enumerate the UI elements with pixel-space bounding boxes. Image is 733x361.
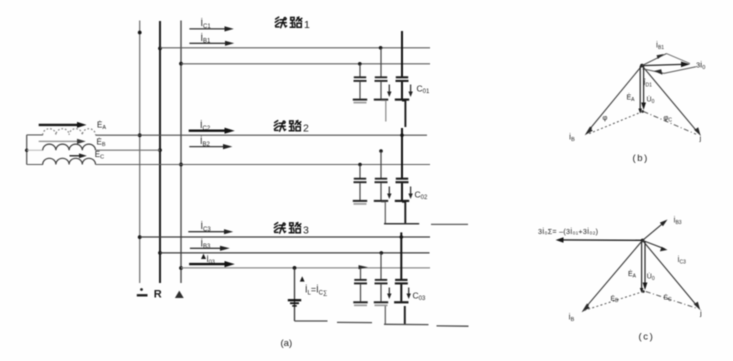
phasor c label E_B on dashed side xyxy=(611,294,620,304)
current arrow I_B3 xyxy=(190,246,230,251)
current arrow beside C02 cap3 xyxy=(408,187,412,200)
svg-text:İC1: İC1 xyxy=(201,18,212,30)
capacitor C03 cap2 xyxy=(374,280,388,305)
bus C (right vertical busbar) xyxy=(180,21,182,284)
current arrow beside C03 cap2 xyxy=(387,288,391,300)
current arrow I_C2 (bold) xyxy=(189,128,235,134)
capacitor group C01: cap3 riser (bold) xyxy=(401,31,403,77)
phasor b vector E_A (left vertical) xyxy=(638,66,642,114)
capacitor group C02: cap2 riser xyxy=(380,151,382,179)
phasor c vector I_C3 (down-right) xyxy=(643,240,668,251)
fault ground branch wire xyxy=(294,268,296,321)
current arrow beside C02 cap2 xyxy=(387,187,391,200)
phasor diagram b: origin node xyxy=(640,64,644,68)
bus B (middle vertical busbar) xyxy=(159,21,161,283)
fault current label I_L = I_C sum xyxy=(305,285,327,297)
capacitor C01 cap2 xyxy=(374,77,388,99)
current arrow I_C1 xyxy=(189,26,233,31)
phasor b angle label phi left xyxy=(603,113,608,122)
svg-text:ĖA: ĖA xyxy=(627,93,636,103)
svg-text:İB: İB xyxy=(569,133,575,144)
phasor c vector I_C (down-right long) xyxy=(643,240,701,310)
phasor c vector U_0 (right vertical) xyxy=(643,241,648,290)
ground bar under C02 group xyxy=(384,223,419,225)
wire line3 phase A conductor xyxy=(140,236,430,238)
svg-text:φ: φ xyxy=(603,113,608,122)
node line2-C / C02 cap1 riser junction xyxy=(358,163,362,167)
capacitor group C01: cap2 riser xyxy=(380,48,382,78)
phasor c dashed side to left tip xyxy=(584,292,643,311)
svg-text:(c): (c) xyxy=(639,332,655,343)
capacitor C03 cap3 xyxy=(394,280,408,302)
wire neutral to winding B xyxy=(27,149,43,151)
svg-text:2: 2 xyxy=(303,123,309,135)
wire C03 cap3 tail (bold) xyxy=(404,306,406,325)
phasor b label at right tip xyxy=(699,134,702,143)
svg-text:ĖA: ĖA xyxy=(97,121,106,132)
capacitor C02 cap1 xyxy=(353,179,367,204)
svg-text:j: j xyxy=(699,134,702,143)
node line1-B / C01 cap2 riser junction xyxy=(379,46,383,50)
capacitor C02 cap2 xyxy=(374,179,388,201)
EMF label E_A xyxy=(97,121,106,132)
ground line dash 2 (under C03 tails) xyxy=(384,323,429,325)
phasor b vector 3I_0 (horizontal) xyxy=(642,62,690,68)
node bus C / line3 tap junction xyxy=(179,266,183,270)
value label C02 xyxy=(415,190,428,202)
current label I_B1 xyxy=(201,33,212,45)
svg-text:φC: φC xyxy=(664,113,673,123)
phasor b node at vertical tip xyxy=(641,110,644,113)
phasor b label I_B1 xyxy=(656,41,664,51)
node line2-B / C02 cap2 riser junction xyxy=(379,149,383,153)
current label I_C2 xyxy=(200,120,211,132)
wire C01 cap2 tail xyxy=(381,101,386,122)
fault current up arrow xyxy=(300,276,305,281)
phasor c vector E_A (left vertical) xyxy=(640,241,644,293)
capacitor C01 cap1 xyxy=(353,77,367,102)
EMF label E_B xyxy=(97,138,106,149)
svg-text:İC3: İC3 xyxy=(201,221,212,233)
svg-text:R: R xyxy=(154,289,162,301)
phasor c label E_A xyxy=(628,269,637,279)
phasor c label I_C3 xyxy=(678,255,687,265)
phasor b dash-dot side to right tip xyxy=(644,112,697,135)
label (c) xyxy=(639,332,655,343)
phasor c label E_C on dash-dot side xyxy=(664,293,673,303)
svg-text:İB3: İB3 xyxy=(674,216,682,226)
transformer winding A (dotted coil) xyxy=(43,129,96,135)
current arrow I_B2 xyxy=(189,144,232,149)
EMF label E_C xyxy=(95,150,104,161)
node bus B / line3 tap junction xyxy=(158,251,162,255)
svg-text:3İ₀Σ= –(3İ₀₁+3İ₀₂): 3İ₀Σ= –(3İ₀₁+3İ₀₂) xyxy=(538,227,598,236)
phasor c node at vertical tip xyxy=(642,290,645,293)
current arrow I_B1 xyxy=(189,41,234,46)
svg-text:İB: İB xyxy=(569,313,575,324)
current label I_C3 xyxy=(201,221,212,233)
wire line2 phase C conductor (from winding C through bus C) xyxy=(96,164,431,166)
phasor c label right tip xyxy=(699,309,702,318)
svg-text:j: j xyxy=(699,309,702,318)
node line2-A / C02 cap3 riser junction xyxy=(400,133,404,137)
svg-text:İL=İC∑: İL=İC∑ xyxy=(305,285,327,297)
node bus A / line2 tap junction xyxy=(138,133,142,137)
EMF arrow phase B xyxy=(39,139,86,144)
current label I_03 with up tick xyxy=(201,254,215,266)
capacitor group C02: cap1 riser xyxy=(359,165,361,179)
ground line solid segment xyxy=(295,320,328,322)
phasor b lower parallelogram side xyxy=(643,67,696,75)
transformer winding C (coil) xyxy=(43,158,96,164)
svg-text:ĖA: ĖA xyxy=(628,269,637,279)
wire C03 cap2 tail xyxy=(384,306,386,324)
wire C02 cap2 tail xyxy=(381,202,385,224)
capacitor C02 cap3 xyxy=(395,179,409,201)
svg-text:(b): (b) xyxy=(633,153,649,164)
value label C01 xyxy=(417,84,430,96)
label line 1 (xian lu 1) xyxy=(275,17,310,31)
phasor c label I_B left tip xyxy=(569,313,575,324)
bus A label (dot-dash glyph) xyxy=(137,288,148,295)
bus B label R xyxy=(154,289,162,301)
label line 3 (xian lu 3) xyxy=(274,223,309,237)
capacitor group C02: cap3 riser (bold) xyxy=(401,128,403,179)
current arrow beside C01 cap3 xyxy=(408,85,412,98)
node bus C / line1 tap junction xyxy=(179,62,183,66)
svg-text:ĖC: ĖC xyxy=(664,293,673,303)
wire line1 phase B conductor xyxy=(160,47,430,49)
ground line dash 3 xyxy=(437,325,469,327)
wire neutral to winding A xyxy=(27,134,43,136)
svg-text:1: 1 xyxy=(304,19,310,31)
svg-text:3: 3 xyxy=(303,225,309,237)
label (b) xyxy=(633,153,649,164)
current arrow I_C3 xyxy=(188,229,233,234)
arrowhead on line3-C fault current xyxy=(359,265,369,269)
transformer neutral junction xyxy=(25,149,28,152)
node bus A / line1 tap junction xyxy=(138,31,142,35)
label line 2 (xian lu 2) xyxy=(274,121,309,135)
wire line3 phase C conductor (faulted) xyxy=(181,267,430,269)
current arrow 3I_0 line3 (bold) xyxy=(189,261,235,267)
bus A (left vertical busbar) xyxy=(139,21,141,284)
phasor b label I_B xyxy=(569,133,575,144)
ground line dash 1 xyxy=(337,321,372,323)
phasor b vector I_B (down-left) xyxy=(585,66,642,136)
capacitor group C03: cap1 riser xyxy=(360,268,362,280)
wire C01 cap3 tail (bold) xyxy=(402,101,405,127)
ground symbol at fault xyxy=(288,300,301,306)
wire line1 phase C conductor xyxy=(181,63,430,65)
node bus B / line2 tap junction xyxy=(158,148,162,152)
phasor b upper parallelogram side I_B1 xyxy=(642,54,690,66)
value label C03 xyxy=(413,291,426,303)
current arrow beside C03 cap3 xyxy=(407,288,411,300)
phasor c origin node xyxy=(641,239,645,243)
phasor c label U_0 xyxy=(647,272,655,281)
svg-text:U̇0: U̇0 xyxy=(647,95,655,104)
wire winding B to bus B xyxy=(96,149,161,151)
svg-text:C01: C01 xyxy=(417,84,430,96)
current label I_B2 xyxy=(200,136,211,148)
phasor b vector U_0 (right vertical) xyxy=(641,66,646,110)
phasor c label I_B3 xyxy=(674,216,682,226)
node line3-C / ground branch junction xyxy=(293,266,297,270)
current label I_B3 xyxy=(201,238,212,250)
wire neutral to winding C xyxy=(27,164,43,166)
svg-text:ĖC: ĖC xyxy=(95,150,104,161)
node bus C / line2 tap junction xyxy=(179,163,183,167)
phasor b label U_0 xyxy=(647,95,655,104)
capacitor C03 cap1 xyxy=(353,280,367,305)
phasor c vector I_B3 (up-right) xyxy=(643,220,668,241)
phasor b label E_A xyxy=(627,93,636,103)
ground dash right of C02 group xyxy=(431,223,468,225)
label (a) xyxy=(281,338,293,349)
phasor c long left arrow 3I_0 xyxy=(556,237,643,242)
transformer winding B (coil) xyxy=(43,144,96,150)
current label I_C1 xyxy=(201,18,212,30)
phasor b label 3I_0 xyxy=(696,61,705,72)
EMF arrow phase A xyxy=(39,122,87,128)
node line3-B / C03 cap2 riser junction xyxy=(380,251,384,255)
capacitor group C03: cap2 riser xyxy=(380,253,382,280)
phasor b angle label phi right xyxy=(664,113,673,123)
svg-text:İC3: İC3 xyxy=(678,255,687,265)
phasor b vector I_C (down-right) xyxy=(642,66,701,136)
wire line3 phase B conductor xyxy=(160,252,430,254)
capacitor C01 cap3 xyxy=(395,77,409,99)
current arrow beside C01 cap2 xyxy=(387,85,391,98)
capacitor group C01: cap1 riser xyxy=(359,64,361,78)
wire C02 cap3 tail (bold) xyxy=(402,202,405,224)
phasor b dashed side to left tip xyxy=(587,112,643,135)
phasor c vector I_B (down-left long) xyxy=(582,240,643,312)
capacitor group C03: cap3 riser (bold) xyxy=(400,232,402,280)
transformer neutral wire xyxy=(26,135,28,165)
svg-text:C02: C02 xyxy=(415,190,428,202)
wire line2 phase A conductor (from winding A through bus A) xyxy=(96,134,428,136)
node line1-C / C01 cap1 riser junction xyxy=(358,62,362,66)
node bus B / line1 tap junction xyxy=(158,47,162,51)
svg-text:(a): (a) xyxy=(281,338,293,349)
phasor c dash-dot side to right tip xyxy=(646,292,698,309)
phasor c formula 3I_0 sum xyxy=(538,227,598,236)
EMF arrow phase C xyxy=(70,153,87,158)
node line3-A / C03 cap3 riser junction xyxy=(400,235,404,239)
svg-text:C03: C03 xyxy=(413,291,426,303)
svg-text:İB1: İB1 xyxy=(656,41,664,51)
svg-text:ĖB: ĖB xyxy=(611,294,620,304)
svg-text:3İ0: 3İ0 xyxy=(696,61,705,72)
node bus A / line3 tap junction xyxy=(138,235,142,239)
svg-text:ĖB: ĖB xyxy=(97,138,106,149)
svg-text:U̇0: U̇0 xyxy=(647,272,655,281)
phasor b label I_D1 xyxy=(643,78,653,88)
bus C label triangle xyxy=(175,291,184,298)
